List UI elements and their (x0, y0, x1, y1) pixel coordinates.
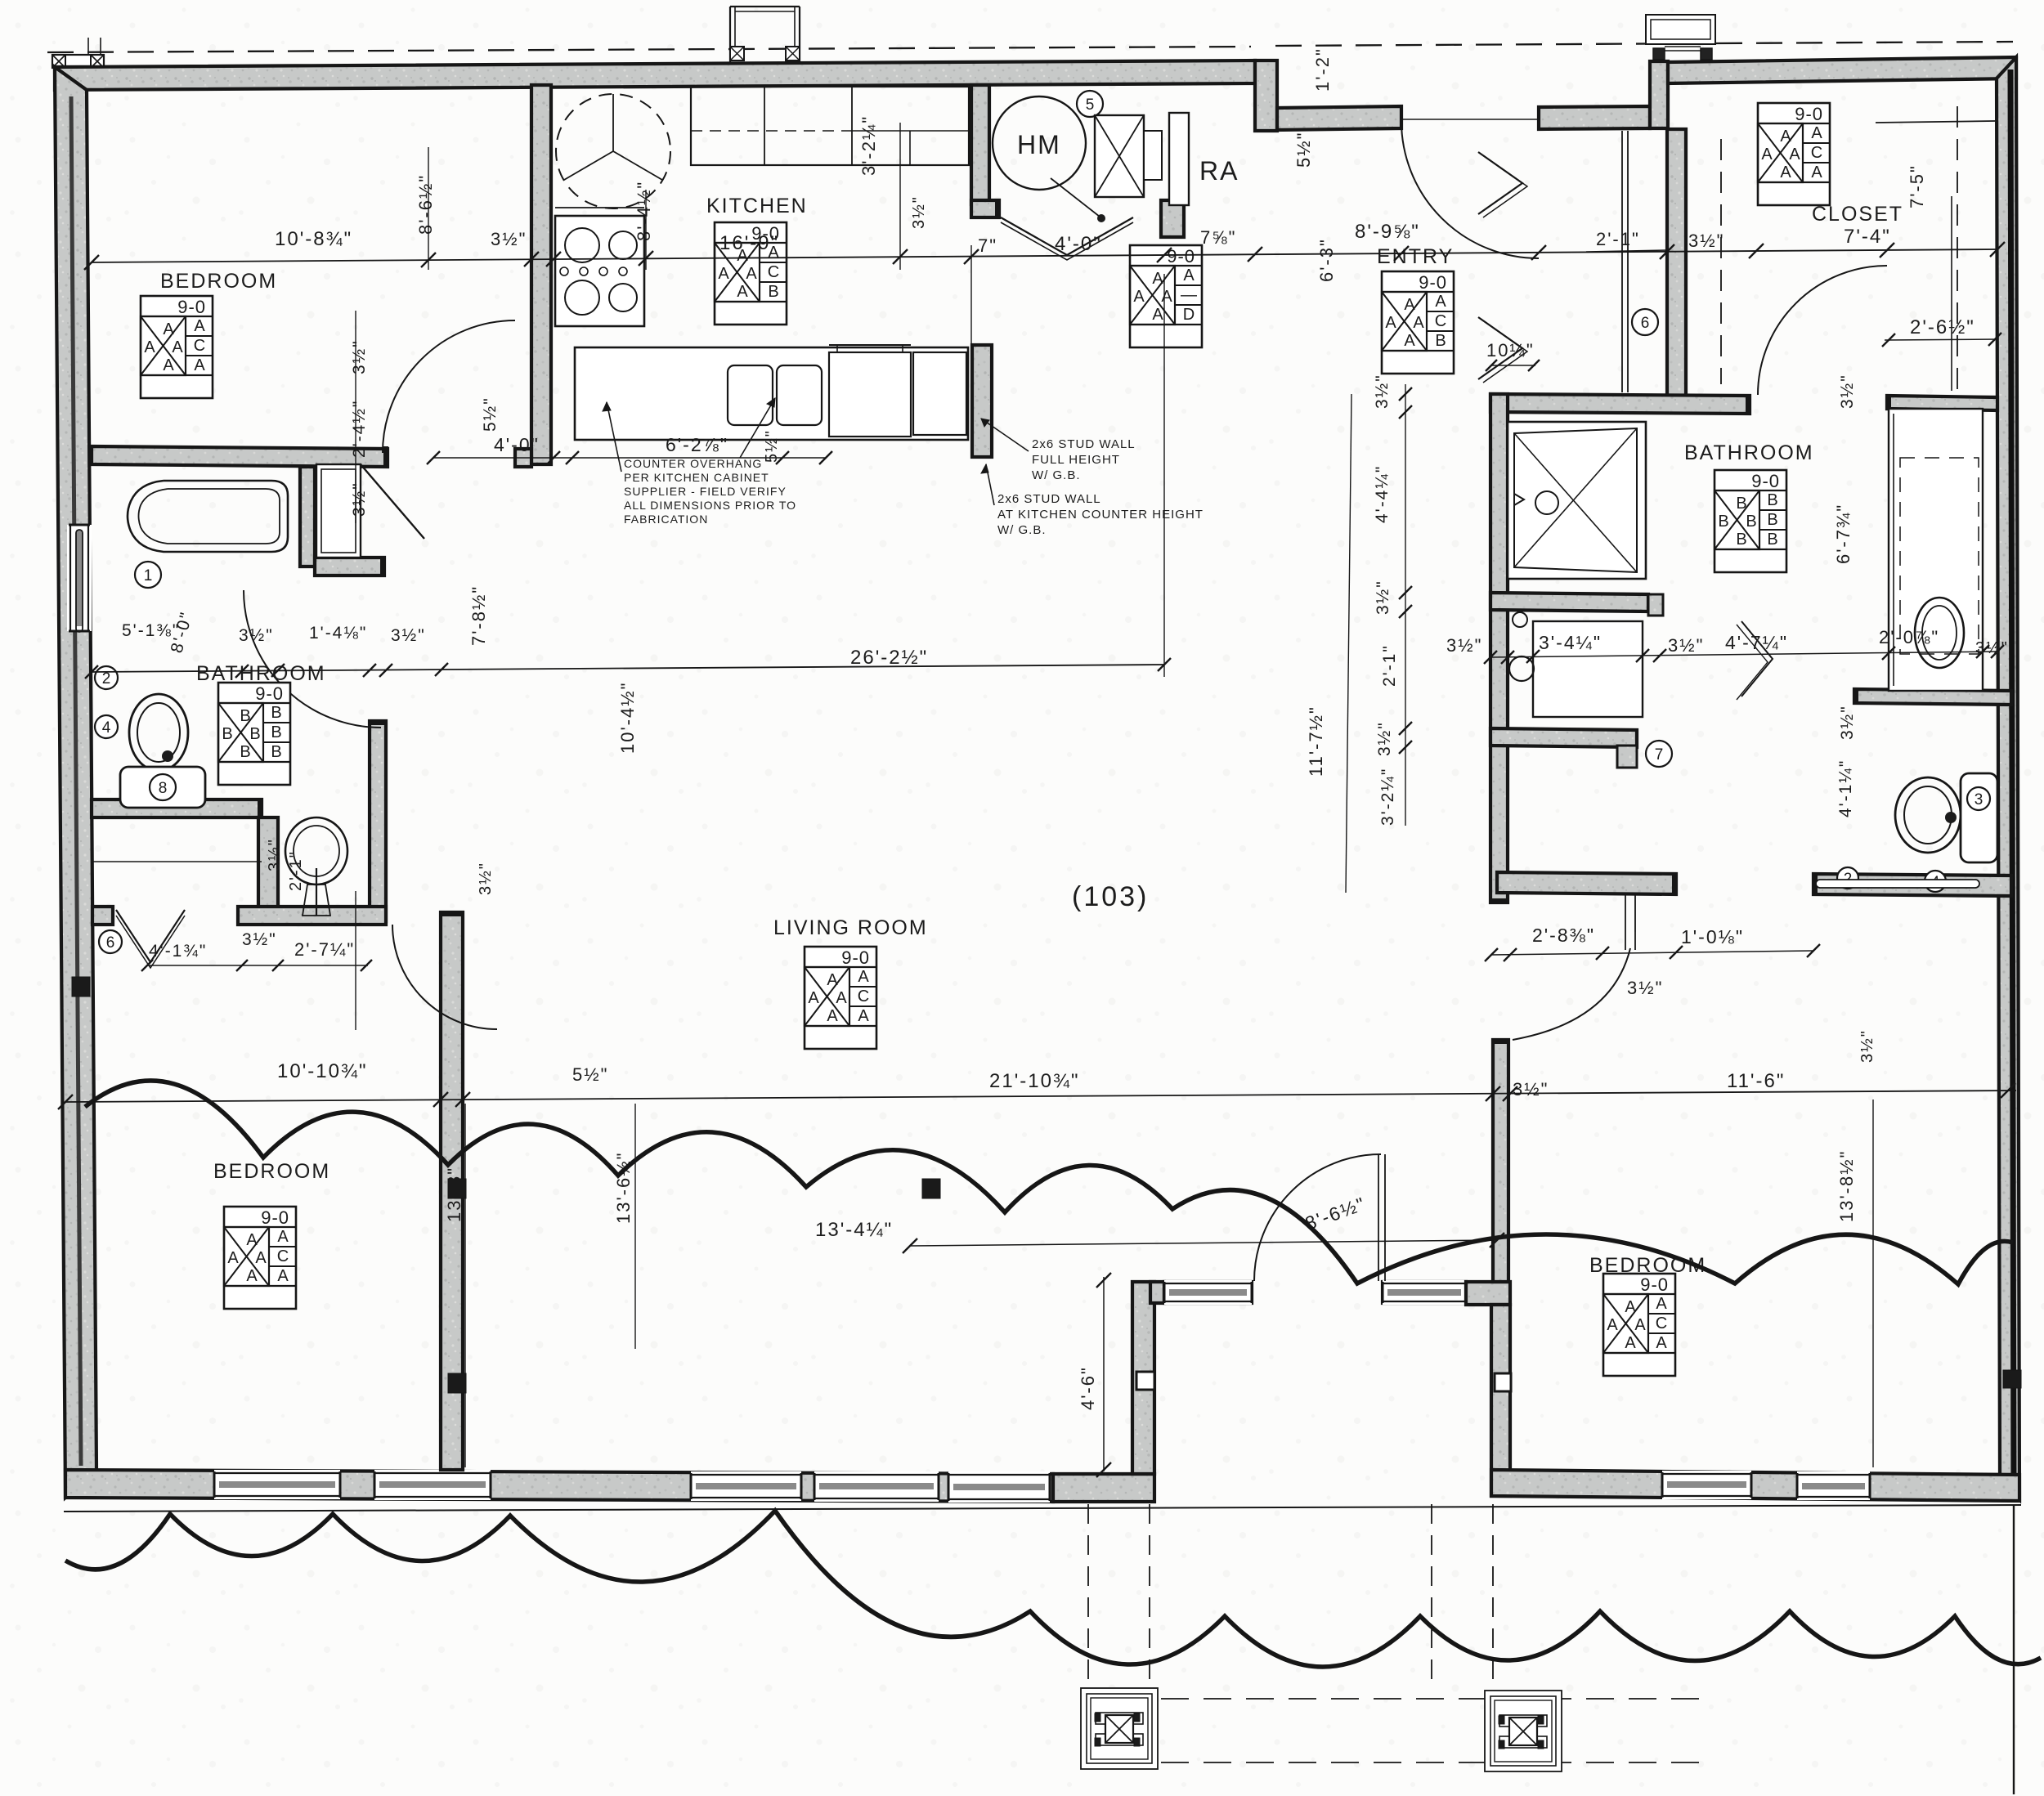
svg-text:1: 1 (144, 567, 153, 584)
svg-text:A: A (808, 989, 819, 1007)
svg-text:D: D (1183, 306, 1195, 324)
svg-text:C: C (1811, 144, 1822, 162)
svg-text:B: B (1767, 511, 1777, 529)
svg-text:7": 7" (978, 235, 997, 256)
svg-text:A: A (1625, 1334, 1636, 1352)
svg-text:B: B (271, 723, 281, 741)
svg-text:A: A (1183, 266, 1195, 284)
svg-text:B: B (1736, 495, 1746, 513)
svg-text:B: B (271, 704, 281, 722)
svg-text:B: B (240, 743, 250, 761)
svg-text:RA: RA (1199, 156, 1239, 186)
svg-text:(103): (103) (1072, 881, 1149, 912)
svg-text:2'-6½": 2'-6½" (1910, 316, 1975, 338)
svg-text:3½": 3½" (1838, 705, 1857, 740)
svg-text:7'-5": 7'-5" (1907, 164, 1927, 208)
svg-text:10'-10¾": 10'-10¾" (277, 1060, 368, 1082)
svg-text:3'-2¼": 3'-2¼" (858, 115, 879, 176)
svg-text:3½": 3½" (239, 626, 274, 645)
svg-text:9-0: 9-0 (1419, 272, 1447, 293)
svg-text:A: A (144, 338, 155, 356)
svg-text:3: 3 (1975, 791, 1983, 808)
svg-text:A: A (1780, 128, 1791, 146)
svg-text:A: A (1404, 332, 1415, 350)
svg-text:3½": 3½" (910, 195, 928, 229)
svg-text:A: A (277, 1267, 289, 1285)
svg-text:16'-9": 16'-9" (719, 232, 779, 254)
svg-text:B: B (1718, 513, 1728, 531)
svg-text:3½": 3½" (242, 930, 277, 949)
svg-text:9-0: 9-0 (841, 947, 870, 968)
svg-text:2'-7¼": 2'-7¼" (294, 939, 355, 960)
svg-text:3½": 3½" (1627, 978, 1663, 998)
svg-text:A: A (172, 338, 183, 356)
svg-text:2'-1": 2'-1" (287, 850, 305, 891)
svg-text:3½": 3½" (491, 229, 527, 249)
svg-text:C: C (194, 337, 205, 355)
svg-text:A: A (1161, 288, 1172, 306)
svg-text:1'-4⅛": 1'-4⅛" (309, 624, 367, 643)
svg-text:4'-1¼": 4'-1¼" (1836, 759, 1855, 817)
svg-text:A: A (1761, 146, 1773, 163)
svg-text:A: A (858, 1007, 869, 1025)
svg-text:A: A (194, 317, 205, 335)
svg-text:2'-8⅜": 2'-8⅜" (1532, 925, 1595, 946)
svg-text:FULL HEIGHT: FULL HEIGHT (1032, 453, 1120, 467)
svg-text:21'-10¾": 21'-10¾" (989, 1070, 1080, 1092)
svg-text:2x6 STUD WALL: 2x6 STUD WALL (1032, 437, 1136, 451)
svg-text:2'-1": 2'-1" (1380, 644, 1399, 687)
svg-text:FABRICATION: FABRICATION (624, 513, 708, 526)
svg-text:A: A (255, 1249, 267, 1267)
svg-text:CLOSET: CLOSET (1812, 203, 1903, 226)
svg-text:A: A (1656, 1295, 1667, 1313)
svg-text:11'-6": 11'-6" (1727, 1070, 1785, 1092)
svg-text:9-0: 9-0 (177, 297, 206, 317)
svg-text:A: A (227, 1249, 239, 1267)
svg-text:4'-0": 4'-0" (1055, 233, 1102, 255)
svg-text:6'-7¾": 6'-7¾" (1833, 504, 1853, 564)
svg-text:B: B (768, 283, 778, 301)
svg-text:A: A (1152, 270, 1163, 288)
svg-text:3½": 3½" (266, 838, 284, 871)
svg-text:1'-0⅛": 1'-0⅛" (1681, 926, 1744, 947)
svg-text:10¼": 10¼" (1486, 340, 1535, 361)
svg-text:13'-8½": 13'-8½" (1836, 1150, 1857, 1222)
svg-text:BATHROOM: BATHROOM (196, 662, 326, 685)
svg-text:7'-4": 7'-4" (1844, 226, 1891, 248)
svg-text:C: C (1656, 1315, 1667, 1332)
svg-text:3½": 3½" (1373, 374, 1392, 409)
svg-text:BATHROOM: BATHROOM (1684, 441, 1814, 464)
svg-text:A: A (1607, 1316, 1618, 1334)
svg-text:2x6 STUD WALL: 2x6 STUD WALL (997, 492, 1101, 506)
svg-text:3½": 3½" (1513, 1079, 1549, 1100)
svg-text:A: A (827, 1007, 838, 1025)
svg-text:A: A (1385, 314, 1396, 332)
svg-text:9-0: 9-0 (1795, 104, 1823, 124)
svg-text:A: A (163, 320, 174, 338)
svg-text:KITCHEN: KITCHEN (706, 195, 808, 217)
svg-text:1'-2": 1'-2" (1312, 47, 1333, 92)
svg-text:9-0: 9-0 (255, 683, 284, 704)
svg-text:5½": 5½" (1293, 132, 1314, 168)
svg-text:A: A (1133, 288, 1145, 306)
svg-text:3½": 3½" (1375, 721, 1394, 756)
svg-text:A: A (1656, 1334, 1667, 1352)
svg-text:9-0: 9-0 (1640, 1274, 1669, 1295)
svg-text:SUPPLIER - FIELD VERIFY: SUPPLIER - FIELD VERIFY (624, 485, 787, 498)
svg-text:COUNTER OVERHANG: COUNTER OVERHANG (624, 457, 762, 470)
svg-text:4'-4¼": 4'-4¼" (1373, 465, 1392, 523)
svg-text:2'-4½": 2'-4½" (350, 400, 369, 458)
svg-text:B: B (1767, 491, 1777, 509)
svg-text:3'-2¼": 3'-2¼" (1378, 768, 1397, 826)
svg-text:9-0: 9-0 (261, 1207, 289, 1228)
svg-text:7'-8½": 7'-8½" (468, 585, 489, 646)
svg-text:LIVING ROOM: LIVING ROOM (773, 916, 928, 939)
svg-text:A: A (1435, 293, 1446, 311)
svg-text:5½": 5½" (572, 1064, 608, 1085)
svg-text:3½": 3½" (1374, 580, 1392, 615)
svg-text:B: B (240, 707, 250, 725)
svg-text:C: C (858, 988, 869, 1005)
svg-text:A: A (1789, 146, 1800, 163)
svg-text:B: B (249, 725, 260, 743)
svg-text:A: A (1634, 1316, 1646, 1334)
svg-text:3½": 3½" (1838, 374, 1857, 409)
svg-text:6'-2⅞": 6'-2⅞" (666, 434, 728, 455)
svg-text:W/ G.B.: W/ G.B. (997, 523, 1047, 537)
svg-text:3½": 3½" (391, 626, 426, 645)
svg-text:B: B (1746, 513, 1756, 531)
svg-text:B: B (222, 725, 232, 743)
svg-text:C: C (768, 263, 779, 281)
svg-text:2: 2 (102, 670, 111, 687)
svg-text:7: 7 (1655, 746, 1664, 764)
svg-text:A: A (1413, 314, 1424, 332)
svg-text:5½": 5½" (481, 396, 500, 432)
svg-text:PER KITCHEN CABINET: PER KITCHEN CABINET (624, 471, 769, 484)
svg-text:BEDROOM: BEDROOM (160, 270, 277, 293)
svg-text:4'-1¾": 4'-1¾" (149, 942, 207, 961)
svg-text:A: A (163, 356, 174, 374)
svg-text:ALL DIMENSIONS PRIOR TO: ALL DIMENSIONS PRIOR TO (624, 499, 796, 512)
svg-text:A: A (194, 356, 205, 374)
svg-text:8: 8 (159, 780, 168, 797)
svg-text:7⅝": 7⅝" (1200, 227, 1236, 248)
svg-text:3½": 3½" (350, 339, 369, 374)
svg-text:2'-0⅞": 2'-0⅞" (1879, 627, 1939, 647)
svg-text:B: B (1435, 332, 1446, 350)
svg-text:11'-7½": 11'-7½" (1306, 705, 1326, 777)
svg-text:BEDROOM: BEDROOM (213, 1160, 330, 1183)
svg-text:4'-7¼": 4'-7¼" (1725, 632, 1788, 653)
svg-text:A: A (277, 1228, 289, 1246)
svg-text:B: B (271, 743, 281, 761)
svg-text:3'-4¼": 3'-4¼" (1539, 632, 1602, 653)
svg-text:A: A (1152, 306, 1163, 324)
svg-text:3½": 3½" (1446, 635, 1482, 656)
svg-text:9-0: 9-0 (1751, 471, 1780, 491)
svg-text:ENTRY: ENTRY (1377, 245, 1454, 268)
svg-text:3½": 3½" (1688, 231, 1724, 251)
svg-text:6: 6 (106, 934, 115, 952)
svg-text:BEDROOM: BEDROOM (1589, 1254, 1706, 1277)
svg-text:AT KITCHEN COUNTER HEIGHT: AT KITCHEN COUNTER HEIGHT (997, 508, 1204, 522)
svg-text:A: A (737, 283, 748, 301)
svg-text:C: C (1435, 312, 1446, 330)
svg-text:10'-8¾": 10'-8¾" (275, 228, 352, 250)
svg-text:A: A (246, 1231, 258, 1249)
svg-text:HM: HM (1017, 130, 1061, 159)
svg-text:26'-2½": 26'-2½" (850, 647, 928, 669)
svg-text:8'-4½": 8'-4½" (634, 181, 654, 241)
svg-text:8'-6½": 8'-6½" (415, 174, 436, 235)
svg-text:6: 6 (1641, 315, 1650, 332)
svg-text:3½": 3½" (477, 862, 495, 895)
svg-text:A: A (1780, 163, 1791, 181)
svg-text:4'-0": 4'-0" (494, 434, 540, 455)
svg-text:2'-1": 2'-1" (1596, 229, 1640, 249)
svg-text:3½": 3½" (1858, 1029, 1876, 1063)
svg-text:4'-6": 4'-6" (1078, 1366, 1098, 1410)
svg-text:10'-4½": 10'-4½" (617, 682, 638, 754)
svg-text:5: 5 (1086, 96, 1095, 114)
svg-text:B: B (1767, 531, 1777, 549)
svg-text:A: A (1811, 163, 1822, 181)
svg-text:—: — (1181, 286, 1197, 304)
svg-text:13'-4¼": 13'-4¼" (815, 1219, 893, 1241)
svg-text:A: A (746, 265, 757, 283)
svg-text:A: A (836, 989, 847, 1007)
svg-text:4: 4 (102, 719, 111, 737)
svg-text:A: A (718, 265, 729, 283)
svg-text:B: B (1736, 531, 1746, 549)
svg-text:A: A (827, 971, 838, 989)
svg-text:A: A (858, 968, 869, 986)
svg-text:3½": 3½" (1975, 639, 2009, 657)
svg-text:A: A (246, 1267, 258, 1285)
svg-text:C: C (277, 1247, 289, 1265)
svg-text:W/ G.B.: W/ G.B. (1032, 468, 1081, 482)
svg-text:A: A (1811, 124, 1822, 142)
svg-text:5½": 5½" (763, 429, 781, 463)
svg-text:A: A (1404, 296, 1415, 314)
svg-text:3½": 3½" (350, 481, 369, 517)
svg-text:3½": 3½" (1668, 635, 1704, 656)
svg-text:6'-3": 6'-3" (1316, 238, 1337, 282)
svg-text:A: A (1625, 1298, 1636, 1316)
svg-text:8'-9⅝": 8'-9⅝" (1355, 221, 1420, 243)
